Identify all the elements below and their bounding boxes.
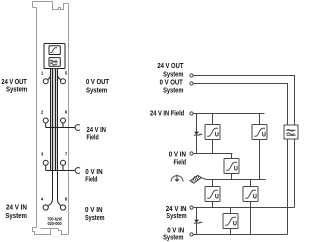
wire 24V IN Field rail — [193, 113, 264, 115]
terminal 0V OUT System — [190, 82, 193, 85]
wire 24V OUT System rail — [193, 76, 294, 126]
terminal 0V IN Field — [190, 152, 193, 155]
suppressor B1 leads — [212, 114, 214, 154]
bundle wire 2 — [52, 69, 54, 171]
wire contact2 stub — [45, 123, 47, 128]
svg-text:System: System — [86, 87, 107, 94]
suppressor B1 — [205, 125, 220, 140]
svg-text:24 V IN: 24 V IN — [87, 127, 107, 134]
svg-text:System: System — [166, 213, 186, 220]
wire 24V IN System rail — [193, 207, 294, 209]
terminal 24V IN System — [190, 206, 193, 209]
svg-text:0 V IN: 0 V IN — [167, 227, 184, 234]
suppressor B3 — [224, 159, 239, 174]
svg-text:System: System — [163, 71, 183, 78]
LED D1 — [194, 132, 203, 136]
wire 0V system vertical below filter — [287, 139, 289, 235]
wire contact6 stub — [62, 123, 64, 128]
module right edge — [68, 4, 70, 235]
svg-text:Field: Field — [174, 160, 187, 167]
bundle wire 3 — [55, 69, 57, 171]
contact 3 — [43, 160, 48, 165]
internal wire bundle band — [51, 69, 58, 171]
bundle wire 4 — [57, 69, 59, 171]
box icon suppressor — [49, 46, 60, 55]
field clamp contact row2 — [75, 125, 80, 131]
bundle wire 1 — [50, 69, 52, 171]
svg-text:24 V OUT: 24 V OUT — [1, 79, 27, 86]
wire earth rail — [201, 178, 266, 180]
contact 7 — [61, 160, 66, 165]
svg-text:24 V IN Field: 24 V IN Field — [150, 110, 184, 117]
suppressor B4 leads — [212, 180, 214, 208]
suppressor B4 — [205, 187, 220, 202]
svg-text:24 V OUT: 24 V OUT — [157, 63, 184, 70]
rail contact earth symbol — [171, 175, 183, 182]
svg-text:0 V IN: 0 V IN — [169, 151, 186, 158]
wire 0V IN Field rail — [193, 153, 232, 155]
svg-text:0 V IN: 0 V IN — [85, 169, 102, 176]
terminal 24V IN Field — [190, 112, 193, 115]
filter block — [284, 125, 298, 139]
module left edge — [36, 8, 38, 228]
wire 24V system vertical below filter — [294, 139, 296, 208]
LED D2 leads — [196, 208, 198, 235]
module bottom profile — [33, 228, 69, 235]
suppressor B2 — [252, 125, 267, 140]
svg-text:Field: Field — [87, 135, 99, 142]
LED D1 leads — [196, 114, 198, 154]
field clamp contact row3 — [75, 168, 80, 174]
terminal 0V IN System — [190, 233, 193, 236]
svg-text:Field: Field — [85, 176, 97, 183]
contact 6 — [61, 118, 66, 123]
wire arc contact5 to bundle — [58, 76, 62, 80]
wire arc contact1 to bundle — [48, 76, 51, 80]
suppressor B3 leads — [231, 154, 233, 180]
contact 8 — [60, 205, 65, 210]
wire 0V IN System rail — [193, 234, 287, 236]
svg-text:System: System — [163, 88, 183, 95]
wire row2 horizontal — [46, 127, 75, 129]
power jumper blade symbol — [190, 175, 201, 183]
suppressor B5 — [243, 187, 258, 202]
contact 4 — [43, 205, 48, 210]
wire row3 horizontal — [46, 170, 75, 172]
wire contact7 stub — [62, 165, 64, 170]
svg-text:0 V IN: 0 V IN — [85, 207, 103, 214]
svg-text:System: System — [163, 235, 183, 242]
svg-text:0 V OUT: 0 V OUT — [86, 79, 110, 86]
svg-text:020-000: 020-000 — [48, 221, 62, 227]
svg-text:24 V IN: 24 V IN — [6, 205, 27, 212]
suppressor B6 leads — [230, 208, 232, 235]
suppressor B6 — [223, 214, 238, 229]
box icon filter — [49, 58, 60, 67]
contact 2 — [43, 118, 48, 123]
wire bundle to contact 8 — [58, 171, 62, 206]
electronics box — [44, 44, 65, 69]
LED D2 — [194, 220, 203, 224]
wire contact3 stub — [45, 165, 47, 170]
suppressor B5 leads — [250, 180, 252, 235]
svg-text:System: System — [85, 215, 105, 222]
svg-text:System: System — [5, 213, 27, 220]
contact 1 — [43, 79, 48, 84]
wire bundle to contact 4 — [48, 171, 53, 206]
svg-text:System: System — [6, 87, 27, 94]
module outline top profile — [33, 2, 69, 10]
suppressor B2 leads — [259, 114, 261, 180]
svg-text:24 V IN: 24 V IN — [166, 206, 187, 213]
terminal 24V OUT System — [190, 74, 193, 77]
contact 5 — [61, 79, 66, 84]
wire 0V OUT System rail — [193, 84, 287, 126]
svg-text:0 V OUT: 0 V OUT — [160, 80, 184, 87]
